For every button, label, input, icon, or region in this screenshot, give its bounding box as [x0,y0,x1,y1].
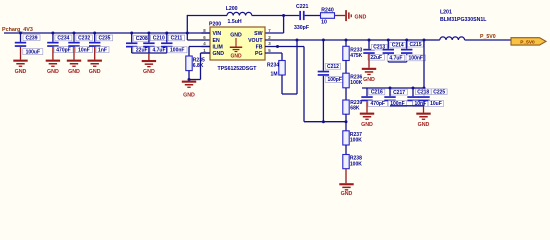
svg-text:475K: 475K [350,53,362,59]
ground divider chain [339,183,353,197]
ground under C234 [46,47,60,75]
wire R237-R238 [345,145,347,155]
pin number 8 [203,28,206,33]
svg-text:10: 10 [321,19,327,25]
capacitor C239 100uF [15,33,43,55]
capacitor C211 100nF [161,33,187,54]
node junction VIN/EN vertical [186,32,189,35]
svg-text:C211: C211 [171,36,183,42]
node junction C215 top [405,39,408,42]
svg-text:L200: L200 [226,6,238,12]
wire C214-C215 bottom bus [388,61,406,63]
svg-text:L201: L201 [440,10,452,16]
svg-text:100K: 100K [350,138,362,144]
wire PG [265,53,282,61]
svg-text:C218: C218 [417,89,429,95]
svg-text:100pF: 100pF [327,77,341,83]
svg-text:100K: 100K [350,80,362,86]
ground under C239 [13,47,27,75]
wire R239 bottom [345,114,347,122]
ground under R235 [182,81,196,99]
pin name ILIM [213,45,223,51]
svg-text:EN: EN [213,38,220,44]
ground under C235 [88,47,102,75]
wire rail1 to rail2 drop [423,40,425,95]
wire R235 bottom [188,71,190,80]
capacitor C232 10nF [68,33,92,53]
svg-text:TPS61252DSGT: TPS61252DSGT [218,66,258,72]
svg-text:C235: C235 [98,36,110,42]
resistor R234 1M [267,61,285,78]
svg-text:C221: C221 [296,4,309,10]
pin name VOUT [248,38,263,44]
pin name EN [213,38,220,44]
node junction R235 ground [188,78,191,81]
svg-text:1M: 1M [271,71,278,77]
svg-text:330pF: 330pF [294,25,309,31]
pin number 6 [203,35,206,40]
capacitor C234 470pF [47,33,73,53]
node junction C218 tap [412,87,415,90]
capacitor C216 470pF [361,88,387,107]
inductor L200 1.5uH [226,6,252,25]
ground under C218/C225 [416,106,430,128]
node junction rail2 right [423,87,426,90]
wire group2 bottom bus [132,52,167,54]
node junction FB [276,45,279,48]
wire C221 to R240 [305,15,321,17]
pin number 1 [203,48,206,53]
svg-text:C210: C210 [153,35,165,41]
node junction C239 tap [19,32,22,35]
pin name GND left [213,51,225,57]
svg-text:Pcharg_4V3: Pcharg_4V3 [2,27,33,33]
svg-text:C216: C216 [371,90,383,96]
node junction C235 tap [93,32,96,35]
svg-text:R240: R240 [321,8,334,14]
wire top rail right [252,15,299,17]
node junction rail2 drop [423,39,426,42]
node junction C213 top [368,39,371,42]
ground shared group2 [142,53,156,75]
node junction C210 tap [147,32,150,35]
svg-text:470pF: 470pF [371,101,385,107]
svg-text:C217: C217 [393,90,405,96]
svg-text:VOUT: VOUT [248,38,263,44]
capacitor C214 4.7uF [383,40,406,62]
wire ILIM to R235 [189,47,210,57]
svg-text:P_5V0: P_5V0 [480,34,496,40]
wire VIN-EN vertical [186,15,188,40]
svg-text:100nF: 100nF [170,48,184,54]
svg-text:10uF: 10uF [430,101,442,107]
resistor R235 6.8K [186,56,205,71]
svg-text:C239: C239 [26,35,38,41]
wire rail2 [362,87,424,89]
svg-text:10nF: 10nF [78,47,90,53]
svg-text:R234: R234 [267,62,279,68]
pin number 7 [268,28,271,33]
wire EN stub [187,39,210,41]
pin number 5 [268,48,271,53]
wire SW stub [265,32,284,34]
ground under C232 [67,47,81,75]
resistor R238 500K [343,155,362,169]
wire top rail left [187,15,227,17]
capacitor C218 10nF [407,88,431,107]
part number TPS61252DSGT [218,66,258,72]
capacitor C208 22uF [126,33,151,54]
svg-text:68K: 68K [350,106,360,112]
svg-text:C225: C225 [433,89,445,95]
ground under C213 [362,54,376,83]
wire GND pin route [189,53,210,80]
svg-text:GND: GND [355,14,367,20]
svg-text:4.7uF: 4.7uF [389,56,402,62]
wire main 4V3 bus [4,32,210,34]
node junction C234 tap [51,32,54,35]
net label P_5V0 [480,34,496,40]
svg-text:C234: C234 [57,36,69,42]
wire R233-R236 [345,61,347,74]
capacitor C217 100nF [384,88,407,107]
wire R233 top stub [345,40,347,46]
inductor L201 BLM31PG330SN1L [440,10,487,40]
node junction C212 top [322,39,325,42]
node junction C232 tap [73,32,76,35]
capacitor C210 4.7uF [143,33,168,54]
svg-text:22uF: 22uF [370,55,382,61]
pin name FB [256,45,263,51]
wire L201 to port [465,39,511,41]
pin name GND pad [230,33,242,39]
svg-text:6.8K: 6.8K [193,63,204,69]
resistor R237 500K [343,131,362,145]
svg-text:P_5V0: P_5V0 [520,39,535,45]
wire R238 bottom [345,169,347,184]
svg-text:GND: GND [230,54,242,60]
node junction R234 pullup [296,39,299,42]
svg-text:GND: GND [89,69,101,75]
svg-text:GND: GND [361,122,373,128]
svg-text:GND: GND [418,122,430,128]
svg-text:100K: 100K [350,161,362,167]
svg-text:GND: GND [143,69,155,75]
ground snubber (right-facing) [345,10,366,21]
port P_5V0 [511,38,546,46]
resistor R233 475K [343,46,363,60]
svg-text:GND: GND [15,69,27,75]
node junction SW top [282,14,285,17]
capacitor C225 10uF [418,89,447,107]
node junction FB tap [345,120,348,123]
wire row2 bottom bus [390,105,424,107]
net label Pcharg_4V3 [2,27,33,33]
svg-text:GND: GND [341,191,353,197]
pin name PG [255,51,263,57]
wire SW drop [283,16,285,34]
node junction C217 tap [389,87,392,90]
svg-text:1.5uH: 1.5uH [228,19,242,25]
capacitor C215 100nF [401,40,426,62]
svg-text:ILIM: ILIM [213,45,223,51]
wire VOUT rail [265,39,424,41]
ground internal pad [230,38,242,60]
svg-text:GND: GND [68,69,80,75]
wire R237 top stub [345,122,347,131]
pin stubs left [202,33,211,53]
ground under C216 [360,101,374,128]
node junction C208 tap [130,32,133,35]
op-amp U P200 body [209,22,265,60]
pin number 2 [268,35,271,40]
capacitor C212 100pF [318,40,345,122]
svg-text:SW: SW [254,31,262,37]
pin number 4 [203,41,206,46]
pin name SW [254,31,262,37]
node junction C211 tap [165,32,168,35]
pin number 3 [268,41,271,46]
wire R234 loop [282,40,297,94]
wire R240 to ground [335,15,346,17]
wire R236-R239 [345,88,347,100]
wire rail to L201 [424,39,440,41]
svg-text:FB: FB [256,45,263,51]
svg-text:100nF: 100nF [409,56,423,62]
svg-text:1nF: 1nF [98,47,107,53]
svg-text:470pF: 470pF [56,47,70,53]
svg-text:C232: C232 [78,36,90,42]
svg-text:PG: PG [255,51,263,57]
wire FB [265,46,304,48]
svg-text:GND: GND [47,69,59,75]
svg-text:GND: GND [230,33,242,39]
node junction C214 top [387,39,390,42]
svg-text:VIN: VIN [213,31,222,37]
svg-text:C212: C212 [327,64,339,70]
svg-text:C215: C215 [410,42,422,48]
svg-text:P200: P200 [209,22,221,28]
wire FB bottom rail [304,121,346,123]
capacitor C221 330pF [294,4,309,31]
resistor R240 10 [321,8,335,26]
svg-text:100uF: 100uF [26,49,40,55]
node junction C212 bottom [322,120,325,123]
wire FB down [303,47,305,122]
node junction R233 top [345,39,348,42]
pin name VIN [213,31,222,37]
svg-text:C214: C214 [392,43,404,49]
resistor R239 68K [343,100,363,114]
resistor R236 100K [343,73,363,88]
svg-text:GND: GND [213,51,225,57]
svg-text:C208: C208 [136,36,148,42]
svg-text:BLM31PG330SN1L: BLM31PG330SN1L [440,17,487,23]
capacitor C235 1nF [89,33,113,53]
svg-text:GND: GND [363,77,375,83]
svg-text:GND: GND [183,93,195,99]
capacitor C213 22uF [363,40,387,61]
